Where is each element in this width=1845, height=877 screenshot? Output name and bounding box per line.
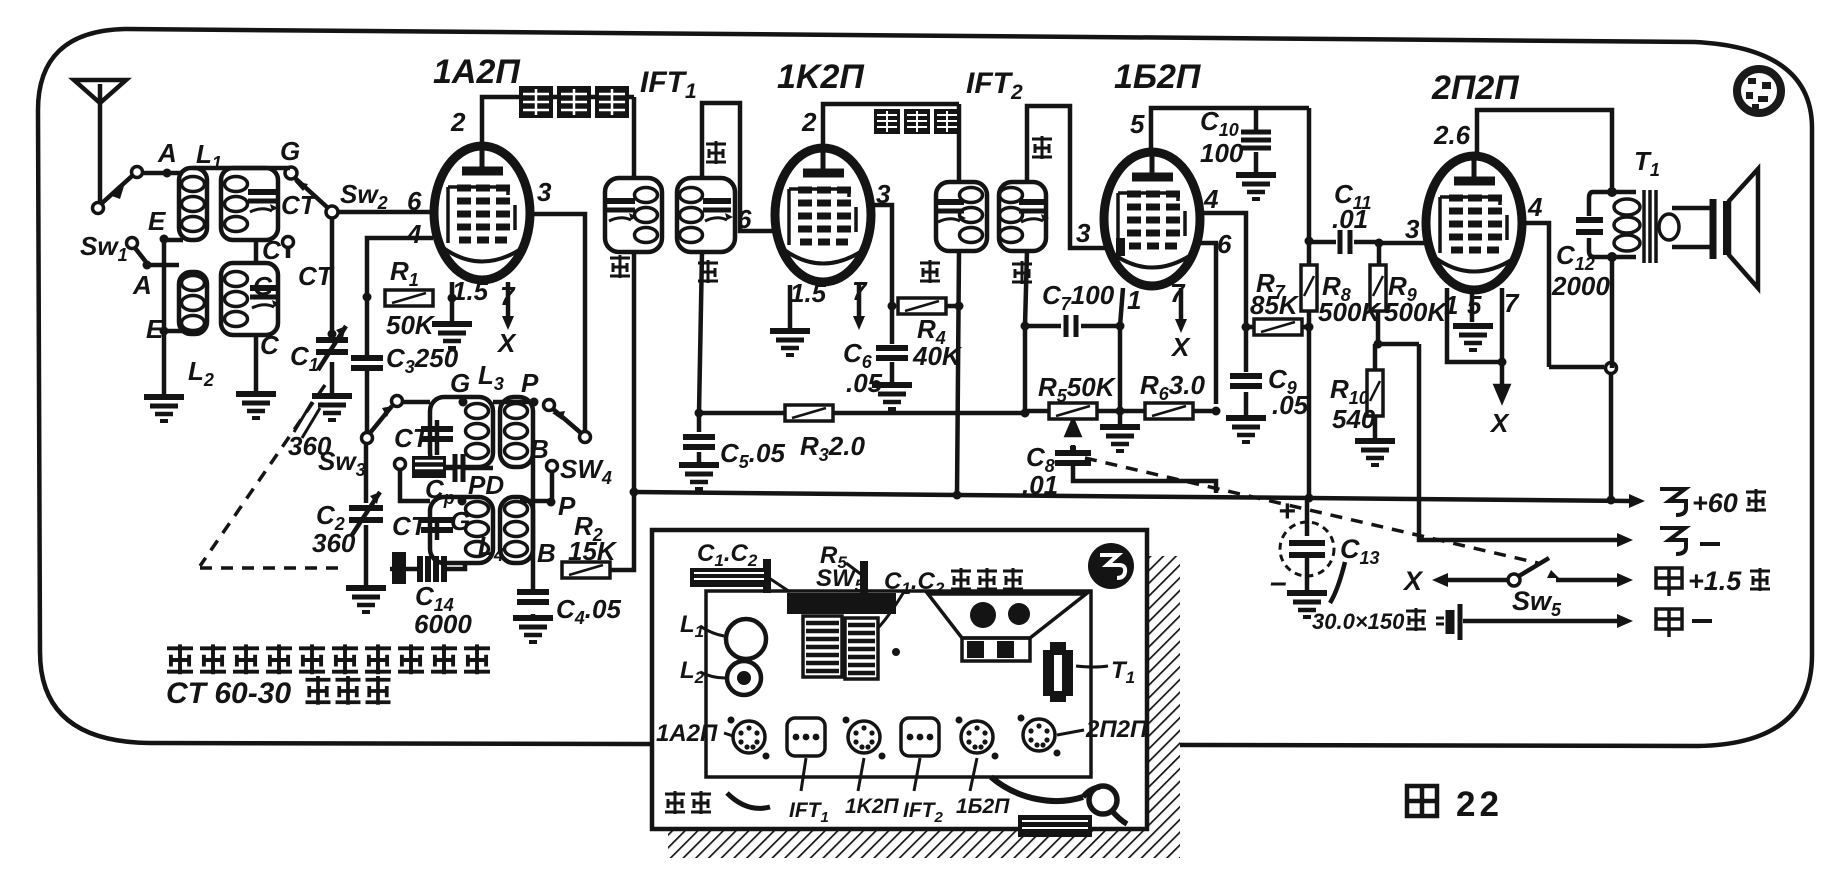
- svg-text:7: 7: [1504, 288, 1520, 318]
- svg-text:C3250: C3250: [386, 343, 459, 377]
- svg-text:30.0×150: 30.0×150: [1312, 609, 1405, 634]
- svg-text:7: 7: [852, 276, 868, 306]
- svg-text:C: C: [262, 235, 282, 265]
- svg-text:G: G: [280, 136, 300, 166]
- svg-text:500K: 500K: [1384, 297, 1448, 327]
- svg-text:5: 5: [1467, 290, 1482, 320]
- svg-text:X: X: [1402, 566, 1424, 596]
- svg-text:CT: CT: [281, 190, 318, 220]
- svg-text:P: P: [521, 368, 539, 398]
- svg-text:.05: .05: [1272, 390, 1309, 420]
- svg-text:X: X: [1489, 408, 1510, 438]
- svg-text:A: A: [157, 138, 177, 168]
- svg-text:G: G: [253, 271, 273, 301]
- svg-text:22: 22: [1456, 785, 1503, 824]
- svg-text:2: 2: [801, 107, 817, 137]
- svg-text:C5.05: C5.05: [720, 438, 785, 472]
- svg-text:.01: .01: [1332, 204, 1368, 234]
- svg-text:7: 7: [500, 281, 516, 311]
- svg-text:E: E: [146, 314, 164, 344]
- svg-text:1.5: 1.5: [790, 278, 827, 308]
- svg-text:1Б2П: 1Б2П: [956, 795, 1010, 818]
- svg-text:B: B: [530, 434, 549, 464]
- svg-text:CT: CT: [394, 423, 431, 453]
- svg-text:R63.0: R63.0: [1140, 370, 1205, 404]
- svg-text:1K2П: 1K2П: [777, 58, 865, 96]
- svg-text:C7100: C7100: [1042, 280, 1115, 314]
- svg-text:40K: 40K: [912, 341, 963, 371]
- svg-text:2П2П: 2П2П: [1431, 69, 1520, 107]
- svg-text:R550K: R550K: [1038, 372, 1117, 406]
- svg-text:50K: 50K: [386, 310, 436, 340]
- svg-text:C: C: [260, 330, 280, 360]
- svg-text:15K: 15K: [568, 536, 618, 566]
- svg-text:360: 360: [312, 528, 356, 558]
- svg-text:1A2П: 1A2П: [433, 53, 521, 91]
- svg-text:CT: CT: [392, 511, 429, 541]
- svg-text:B: B: [537, 538, 556, 568]
- svg-text:CT 60-30: CT 60-30: [166, 677, 291, 710]
- svg-text:+60: +60: [1692, 488, 1738, 518]
- svg-text:6: 6: [1217, 229, 1232, 259]
- svg-text:3: 3: [876, 179, 891, 209]
- svg-text:E: E: [148, 206, 166, 236]
- svg-text:+1.5: +1.5: [1688, 566, 1742, 596]
- svg-text:100: 100: [1200, 138, 1244, 168]
- svg-text:7: 7: [1170, 278, 1186, 308]
- svg-text:540: 540: [1332, 404, 1376, 434]
- svg-text:1K2П: 1K2П: [845, 795, 900, 818]
- svg-text:4: 4: [1527, 192, 1543, 222]
- svg-text:3: 3: [1405, 214, 1420, 244]
- svg-text:–: –: [1270, 566, 1287, 599]
- svg-text:G: G: [450, 506, 470, 536]
- svg-text:1Б2П: 1Б2П: [1114, 58, 1202, 96]
- svg-text:X: X: [1170, 332, 1191, 362]
- svg-text:.05: .05: [846, 368, 883, 398]
- svg-text:6: 6: [407, 186, 422, 216]
- svg-text:A: A: [132, 270, 152, 300]
- svg-text:1.5: 1.5: [452, 276, 489, 306]
- svg-text:4: 4: [406, 219, 422, 249]
- svg-text:6: 6: [737, 204, 752, 234]
- svg-text:2П2П: 2П2П: [1085, 716, 1148, 743]
- svg-text:500K: 500K: [1318, 297, 1382, 327]
- svg-text:CT: CT: [298, 261, 335, 291]
- svg-text:R32.0: R32.0: [800, 431, 865, 465]
- svg-text:X: X: [496, 328, 517, 358]
- svg-text:1: 1: [1444, 290, 1458, 320]
- svg-text:2.6: 2.6: [1433, 120, 1471, 150]
- svg-text:5: 5: [1130, 109, 1145, 139]
- svg-text:1: 1: [1127, 285, 1141, 315]
- svg-text:3: 3: [537, 177, 552, 207]
- svg-text:2000: 2000: [1551, 271, 1610, 301]
- svg-text:C4.05: C4.05: [556, 594, 621, 628]
- svg-text:6000: 6000: [414, 609, 472, 639]
- svg-text:2: 2: [450, 107, 466, 137]
- svg-text:4: 4: [1203, 184, 1219, 214]
- svg-text:PD: PD: [468, 470, 504, 500]
- svg-text:+: +: [1278, 495, 1296, 528]
- svg-text:G: G: [450, 368, 470, 398]
- svg-text:1A2П: 1A2П: [656, 720, 718, 747]
- svg-text:85K: 85K: [1250, 290, 1300, 320]
- svg-text:3: 3: [1076, 218, 1091, 248]
